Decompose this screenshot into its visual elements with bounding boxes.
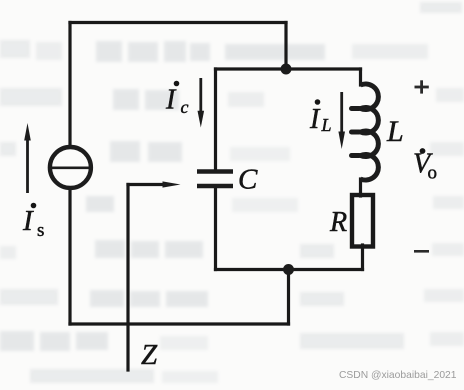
svg-text:L: L (321, 115, 332, 135)
svg-text:I: I (165, 85, 177, 116)
svg-text:o: o (428, 163, 438, 184)
svg-text:R: R (329, 207, 347, 238)
svg-text:c: c (181, 97, 189, 117)
svg-text:Z: Z (141, 339, 158, 371)
svg-text:I: I (309, 104, 321, 135)
svg-text:L: L (386, 115, 404, 148)
svg-text:s: s (37, 220, 44, 241)
svg-text:I: I (22, 205, 34, 237)
svg-text:C: C (238, 164, 258, 196)
